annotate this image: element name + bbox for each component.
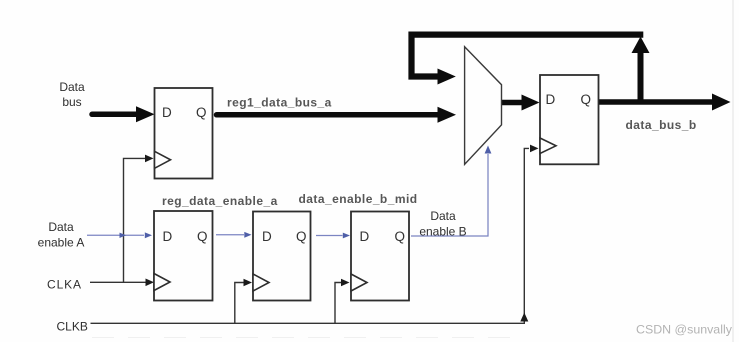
svg-text:D: D (163, 229, 173, 244)
svg-text:Data: Data (48, 220, 74, 234)
svg-text:CLKA: CLKA (47, 277, 82, 291)
svg-text:Q: Q (296, 229, 307, 244)
svg-text:Data: Data (59, 80, 85, 94)
svg-text:reg1_data_bus_a: reg1_data_bus_a (227, 95, 332, 109)
svg-text:CLKB: CLKB (57, 319, 88, 333)
svg-text:Q: Q (581, 92, 592, 107)
svg-text:Q: Q (196, 105, 207, 120)
svg-text:Q: Q (197, 229, 208, 244)
svg-text:bus: bus (62, 95, 81, 109)
svg-text:Data: Data (430, 209, 456, 223)
svg-text:CSDN @sunvally: CSDN @sunvally (636, 323, 733, 337)
svg-text:enable B: enable B (419, 224, 466, 238)
svg-text:D: D (360, 229, 370, 244)
svg-text:enable A: enable A (38, 235, 85, 249)
svg-text:data_enable_b_mid: data_enable_b_mid (299, 192, 418, 206)
svg-text:reg_data_enable_a: reg_data_enable_a (162, 194, 278, 208)
svg-text:D: D (546, 92, 556, 107)
svg-text:Q: Q (395, 229, 406, 244)
svg-text:D: D (262, 229, 272, 244)
svg-text:D: D (162, 105, 172, 120)
svg-text:data_bus_b: data_bus_b (626, 118, 697, 132)
